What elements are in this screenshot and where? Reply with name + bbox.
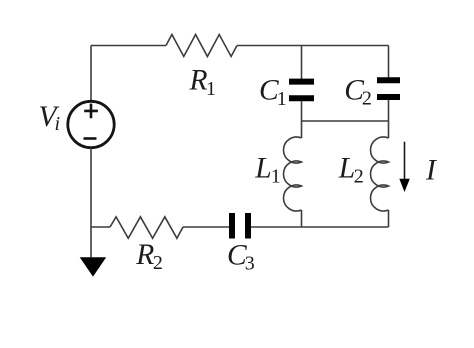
wire L2 top lead (388, 121, 390, 138)
wire C1 branch top (301, 46, 303, 80)
wire C1 branch bottom (301, 101, 303, 121)
wire C2 branch bottom (388, 100, 390, 121)
svg-text:Vi: Vi (39, 101, 61, 135)
svg-text:C1: C1 (259, 75, 287, 110)
svg-text:R1: R1 (189, 65, 217, 100)
svg-text:C3: C3 (227, 240, 255, 275)
wire from R2 to C3 (183, 226, 229, 228)
wire top-left horizontal from Vi branch to R1 (91, 45, 166, 47)
label C1 (259, 75, 287, 110)
wire from C3 to bottom-right (251, 226, 389, 228)
inductor L1 (284, 137, 302, 211)
label L1 (254, 153, 280, 188)
wire L2 bottom lead (388, 210, 390, 227)
wire right vertical from top corner to C2 (388, 46, 390, 78)
ground (80, 227, 107, 277)
label C3 (227, 240, 255, 275)
svg-text:L1: L1 (254, 153, 280, 188)
capacitor C2 (377, 80, 400, 97)
voltage source Vi (68, 101, 114, 147)
resistor R1 (166, 35, 237, 57)
wire bottom-left from node to R2 (91, 226, 110, 228)
label L2 (338, 153, 364, 188)
current arrow I (399, 142, 410, 192)
svg-text:I: I (425, 154, 437, 186)
label C2 (344, 74, 372, 109)
wire left vertical from Vi down to bottom node (90, 148, 92, 227)
svg-text:C2: C2 (344, 74, 372, 109)
wire L1 top lead (301, 121, 303, 138)
wire left vertical from top corner to Vi (90, 46, 92, 102)
label I (425, 154, 437, 186)
capacitor C1 (289, 82, 314, 99)
label R2 (135, 239, 163, 274)
label R1 (189, 65, 217, 100)
svg-text:L2: L2 (338, 153, 364, 188)
wire middle horizontal between C bottoms and L tops (302, 120, 389, 122)
svg-text:R2: R2 (135, 239, 163, 274)
resistor R2 (110, 217, 183, 239)
wire top horizontal from R1 to top-right corner (237, 45, 389, 47)
wire L1 bottom lead (301, 210, 303, 227)
label Vi (39, 101, 61, 135)
capacitor C3 (232, 213, 248, 239)
inductor L2 (371, 137, 389, 211)
